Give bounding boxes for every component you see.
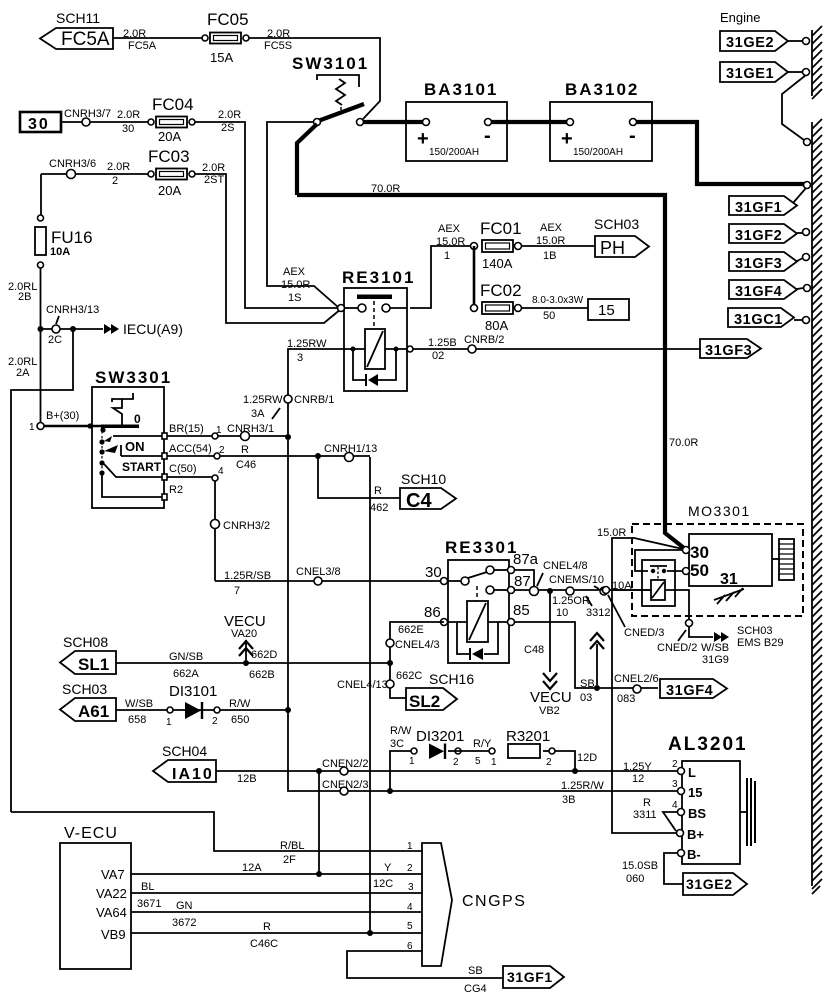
wire 87a to 87 junction <box>515 570 534 587</box>
svg-text:85: 85 <box>513 602 530 619</box>
wire BA3102 - to chassis wall <box>636 122 804 184</box>
svg-text:1B: 1B <box>543 250 556 262</box>
tag 31GE1 (engine ground) <box>720 62 810 82</box>
svg-text:2.0R: 2.0R <box>202 162 225 174</box>
svg-text:SCH04: SCH04 <box>162 743 207 759</box>
svg-text:R/W: R/W <box>390 725 412 737</box>
svg-text:VA64: VA64 <box>96 905 127 920</box>
battery BA3102 <box>550 80 652 161</box>
wire 10A into solenoid coil <box>601 589 651 591</box>
svg-text:662D: 662D <box>251 649 277 661</box>
svg-text:12A: 12A <box>242 862 262 874</box>
svg-text:3C: 3C <box>390 738 404 750</box>
svg-text:SB: SB <box>468 965 483 977</box>
svg-text:SL2: SL2 <box>409 692 440 711</box>
svg-text:IA10: IA10 <box>172 766 214 783</box>
wire VB9 row (R C46C) to CNGPS 5 <box>131 932 422 934</box>
svg-text:C48: C48 <box>524 644 544 656</box>
svg-text:3: 3 <box>297 352 303 364</box>
svg-text:2: 2 <box>212 716 218 727</box>
svg-text:1: 1 <box>29 422 35 433</box>
svg-text:30: 30 <box>690 543 709 562</box>
arrow up from SB row <box>596 644 598 685</box>
svg-text:BS: BS <box>688 806 706 821</box>
svg-text:BL: BL <box>141 881 154 893</box>
svg-text:80A: 80A <box>485 318 508 333</box>
svg-text:662B: 662B <box>249 669 275 681</box>
svg-text:87: 87 <box>514 573 531 590</box>
svg-text:VA22: VA22 <box>96 886 127 901</box>
svg-text:CG4: CG4 <box>464 983 487 995</box>
svg-text:AL3201: AL3201 <box>668 734 748 755</box>
svg-text:C(50): C(50) <box>169 463 197 475</box>
wire FC04 out (2S) down to RE3101 <box>195 122 338 308</box>
svg-text:15.0R: 15.0R <box>536 235 565 247</box>
svg-text:2.0R: 2.0R <box>117 109 140 121</box>
ignition switch SW3301 <box>92 368 172 508</box>
svg-text:50: 50 <box>543 310 555 322</box>
svg-text:V-ECU: V-ECU <box>64 825 118 842</box>
wire FU16 branch vertical <box>40 174 42 215</box>
svg-text:B+: B+ <box>687 827 704 842</box>
svg-text:CNRH3/1: CNRH3/1 <box>227 423 274 435</box>
svg-text:3311: 3311 <box>633 809 657 821</box>
svg-text:1.25Y: 1.25Y <box>623 761 652 773</box>
svg-text:060: 060 <box>626 873 644 885</box>
svg-text:3A: 3A <box>251 408 265 420</box>
svg-text:DI3201: DI3201 <box>416 728 464 745</box>
svg-text:12: 12 <box>632 773 644 785</box>
svg-text:SB: SB <box>580 678 595 690</box>
svg-text:3672: 3672 <box>172 917 196 929</box>
tag 31GE2 (AL B-) <box>683 873 747 895</box>
svg-text:2.0R: 2.0R <box>123 28 146 40</box>
svg-text:-: - <box>629 125 636 147</box>
svg-text:1S: 1S <box>288 292 301 304</box>
wire left bus bottom to CNGPS pin1 (R/BL 2F) <box>11 812 422 851</box>
svg-text:Y: Y <box>384 862 392 874</box>
wire R/462 to C4 <box>318 456 400 498</box>
svg-text:PH: PH <box>600 238 625 258</box>
wire FC03 out (2ST) down to RE3101 <box>195 174 341 323</box>
wire 30 to FC04 <box>61 121 148 123</box>
tag SL1 (SCH08) <box>60 634 116 674</box>
wire RE3101 contact out to FC01/FC02 <box>410 246 470 308</box>
svg-text:3671: 3671 <box>137 898 161 910</box>
svg-text:150/200AH: 150/200AH <box>429 147 479 158</box>
svg-text:-: - <box>484 125 491 147</box>
svg-text:FC5S: FC5S <box>264 40 292 52</box>
svg-text:VECU: VECU <box>530 689 572 706</box>
tag 31GE2 (engine ground) <box>720 31 810 51</box>
svg-text:2F: 2F <box>283 854 296 866</box>
svg-text:2: 2 <box>407 863 413 874</box>
svg-text:FC01: FC01 <box>480 219 522 238</box>
svg-text:R: R <box>241 444 249 456</box>
svg-text:ON: ON <box>125 439 145 454</box>
switch SW3101 (battery switch) <box>292 54 369 126</box>
fuse FC03 20A <box>148 147 195 198</box>
svg-text:SCH03: SCH03 <box>62 681 107 697</box>
svg-text:CNEL4/8: CNEL4/8 <box>543 560 588 572</box>
fuse FU16 10A <box>35 215 93 268</box>
wire switch left contact to FC04/FC03 feeds <box>267 122 338 307</box>
svg-text:SCH03: SCH03 <box>594 216 639 232</box>
wire CNRB/1 vertical continues to BR15 then down to A61 row and CNEN2/3 <box>288 440 680 791</box>
wire CNGPS pin6 to 31GF1 (SB CG4) <box>347 951 503 978</box>
tag IA10 (SCH04) <box>153 743 216 783</box>
svg-text:CNGPS: CNGPS <box>462 893 526 910</box>
svg-text:1: 1 <box>166 717 172 728</box>
fuse FC05 15A <box>202 10 249 65</box>
svg-text:70.0R: 70.0R <box>371 183 400 195</box>
svg-text:083: 083 <box>617 693 635 705</box>
tag 31GC1 <box>728 308 810 328</box>
svg-text:86: 86 <box>424 604 441 621</box>
tag 31GF3 <box>729 252 810 272</box>
fuse FC04 20A <box>148 95 195 144</box>
wire CNEN2/2 drop to VA7 row (R/BL pickup) <box>318 771 320 874</box>
tag 31GF4 (from RE3301 85) <box>660 679 727 699</box>
svg-text:GN: GN <box>176 900 193 912</box>
svg-text:CNEL3/8: CNEL3/8 <box>296 566 341 578</box>
wire 12D drop to 1.25Y row <box>555 751 575 771</box>
svg-text:CNED/2: CNED/2 <box>657 642 697 654</box>
svg-text:1.25R/SB: 1.25R/SB <box>224 570 271 582</box>
tag 31GF3 (from RE3101) <box>700 339 761 359</box>
svg-text:BA3102: BA3102 <box>565 80 639 99</box>
svg-text:31GF1: 31GF1 <box>735 200 782 216</box>
svg-text:BA3101: BA3101 <box>424 80 498 99</box>
svg-text:DI3101: DI3101 <box>169 683 217 700</box>
resistor R3201 <box>506 728 555 768</box>
svg-text:140A: 140A <box>482 256 513 271</box>
svg-text:CNED/3: CNED/3 <box>624 627 664 639</box>
svg-text:12C: 12C <box>373 878 393 890</box>
svg-text:CNRH3/13: CNRH3/13 <box>46 304 99 316</box>
svg-text:15.0R: 15.0R <box>597 527 626 539</box>
svg-text:MO3301: MO3301 <box>688 503 751 519</box>
svg-text:7: 7 <box>234 585 240 597</box>
node IECU branch <box>38 326 44 332</box>
tag SL2 (SCH16) <box>406 671 474 711</box>
svg-text:2.0R: 2.0R <box>218 109 241 121</box>
wire 662E vertical (86 feed) <box>390 622 444 698</box>
svg-text:CNEL4/3: CNEL4/3 <box>395 639 440 651</box>
tag C4 (SCH10) <box>400 471 456 512</box>
svg-text:15.0R: 15.0R <box>281 279 310 291</box>
svg-text:2ST: 2ST <box>204 174 224 186</box>
svg-text:3B: 3B <box>562 794 575 806</box>
node on wall 2 top <box>804 139 811 146</box>
svg-text:R: R <box>643 797 651 809</box>
tag A61 (SCH03) <box>60 681 116 721</box>
relay RE3101 <box>338 268 416 391</box>
wire FC01 out to PH <box>521 245 595 247</box>
svg-text:31GE1: 31GE1 <box>726 66 774 82</box>
tag 31GF1 (bottom) <box>503 966 564 988</box>
wire AL B+ up to starter 30 (15.0SB/15.0R) <box>612 538 683 833</box>
svg-text:CNRH3/2: CNRH3/2 <box>223 520 270 532</box>
svg-text:2S: 2S <box>221 122 234 134</box>
svg-text:20A: 20A <box>158 183 181 198</box>
svg-text:CNEL4/13: CNEL4/13 <box>337 679 388 691</box>
svg-text:SW3101: SW3101 <box>292 54 369 73</box>
svg-text:SCH10: SCH10 <box>401 471 446 487</box>
svg-text:A61: A61 <box>78 702 109 721</box>
svg-text:VB2: VB2 <box>539 705 560 717</box>
svg-text:VA20: VA20 <box>231 628 257 640</box>
arrow VECU VA20 <box>243 660 249 666</box>
svg-text:31: 31 <box>720 571 738 588</box>
svg-text:SCH08: SCH08 <box>63 634 108 650</box>
svg-text:12B: 12B <box>237 773 257 785</box>
ground wall segment 2 (chassis ground) <box>812 119 822 894</box>
tag FC5A (SCH11) <box>40 10 113 50</box>
wire thick battery lead from switch <box>297 124 317 195</box>
svg-text:15: 15 <box>688 785 702 800</box>
tag 31GF1 (to wall) <box>729 188 806 216</box>
svg-text:31GF3: 31GF3 <box>735 256 782 272</box>
diode DI3101 <box>169 683 220 727</box>
svg-text:3312: 3312 <box>586 607 610 619</box>
wire R/W 3C drop from DI3201 row <box>390 751 414 791</box>
svg-text:4: 4 <box>218 466 224 477</box>
svg-text:30: 30 <box>28 116 50 133</box>
svg-text:31GE2: 31GE2 <box>686 876 733 892</box>
node 30 box <box>20 112 61 133</box>
fuse FC01 140A <box>471 219 522 271</box>
svg-text:CNRH3/7: CNRH3/7 <box>64 108 111 120</box>
svg-text:SW3301: SW3301 <box>95 368 172 387</box>
wire 1.25R/SB row to RE3301 pin 30 <box>215 580 440 582</box>
diode DI3201 <box>416 728 464 768</box>
alternator AL3201 <box>633 734 755 864</box>
svg-text:31GF2: 31GF2 <box>735 228 782 244</box>
wire 85 row to SB/31GF4 <box>515 622 658 688</box>
fuse FC02 80A <box>471 281 522 333</box>
svg-text:150/200AH: 150/200AH <box>573 147 623 158</box>
svg-text:662A: 662A <box>173 668 199 680</box>
svg-text:87a: 87a <box>513 551 539 568</box>
svg-text:31GC1: 31GC1 <box>734 312 783 328</box>
svg-text:R: R <box>374 485 382 497</box>
svg-text:658: 658 <box>128 714 146 726</box>
svg-text:FC03: FC03 <box>148 147 190 166</box>
svg-text:50: 50 <box>690 561 709 580</box>
wire switch to BA3101 + <box>363 120 426 124</box>
svg-text:8.0-3.0x3W: 8.0-3.0x3W <box>532 295 584 306</box>
V-ECU box <box>60 825 131 969</box>
svg-text:1.25B: 1.25B <box>428 337 457 349</box>
svg-text:W/SB: W/SB <box>125 698 153 710</box>
svg-text:FC04: FC04 <box>152 95 194 114</box>
svg-text:2A: 2A <box>16 367 30 379</box>
junction A61 row on CNRB1 vertical <box>285 707 291 713</box>
svg-text:SCH16: SCH16 <box>429 671 474 687</box>
svg-text:CNRH3/6: CNRH3/6 <box>49 158 96 170</box>
svg-text:5: 5 <box>407 921 413 932</box>
svg-text:GN/SB: GN/SB <box>169 651 203 663</box>
svg-text:4: 4 <box>407 902 413 913</box>
svg-text:1.25OR: 1.25OR <box>552 595 590 607</box>
svg-text:02: 02 <box>432 350 444 362</box>
battery BA3101 <box>406 80 507 161</box>
svg-text:W/SB: W/SB <box>701 642 729 654</box>
svg-text:15A: 15A <box>210 50 233 65</box>
wire A61 to diode (W/SB 658) <box>116 709 285 711</box>
wire IA10 row (12B / 1.25Y 12) to AL3201 L <box>216 770 680 772</box>
svg-text:R/Y: R/Y <box>473 738 492 750</box>
svg-text:ACC(54): ACC(54) <box>169 443 212 455</box>
connector CNGPS <box>407 841 526 966</box>
wire VA22 row (BL 3671) to CNGPS 3 <box>131 892 422 894</box>
svg-text:SCH03: SCH03 <box>737 625 772 637</box>
svg-text:CNEMS/10: CNEMS/10 <box>549 574 604 586</box>
svg-text:SL1: SL1 <box>78 655 109 674</box>
wire 87 row to starter solenoid (1.25OR 10A) <box>515 589 651 591</box>
svg-text:1: 1 <box>444 250 450 262</box>
svg-text:C46: C46 <box>236 459 256 471</box>
svg-text:15.0R: 15.0R <box>436 236 465 248</box>
svg-text:CNRB/2: CNRB/2 <box>464 334 504 346</box>
wire CNRH3/6 to FC03 <box>41 173 148 175</box>
starter motor MO3301 <box>632 503 803 616</box>
tag 31GF4 <box>729 280 811 300</box>
svg-text:12D: 12D <box>577 752 597 764</box>
svg-text:462: 462 <box>370 502 388 514</box>
svg-text:R2: R2 <box>169 484 183 496</box>
wire FU16 to B+ node (2.0RL) <box>40 268 42 426</box>
svg-text:R/W: R/W <box>229 698 251 710</box>
wire AL B- to 31GE2 <box>664 853 683 884</box>
svg-text:FU16: FU16 <box>51 228 93 247</box>
svg-text:1.25RW: 1.25RW <box>243 394 283 406</box>
wire solenoid coil to CNED/2 and EMS B29 <box>665 590 713 637</box>
svg-text:5: 5 <box>475 756 481 767</box>
wire RE3101 coil out (1.25B) to 31GF3 <box>413 348 700 350</box>
tag PH (SCH03) <box>594 216 649 258</box>
relay RE3301 <box>424 538 539 663</box>
wire SL1 row (GN/SB 662A) <box>116 662 390 664</box>
arrow to IECU(A9) <box>104 324 119 334</box>
svg-text:AEX: AEX <box>438 223 461 235</box>
svg-text:2C: 2C <box>48 334 62 346</box>
svg-text:1: 1 <box>407 841 413 852</box>
svg-text:20A: 20A <box>158 129 181 144</box>
svg-text:R: R <box>263 921 271 933</box>
svg-text:15.0SB: 15.0SB <box>622 860 658 872</box>
svg-text:1.25RW: 1.25RW <box>287 338 327 350</box>
svg-text:B+(30): B+(30) <box>46 410 79 422</box>
svg-text:2: 2 <box>546 757 552 768</box>
wire FC5A to FC05 <box>113 37 202 39</box>
svg-text:+: + <box>561 128 573 150</box>
svg-text:EMS B29: EMS B29 <box>737 637 783 649</box>
svg-text:662C: 662C <box>396 670 422 682</box>
svg-text:30: 30 <box>425 564 442 581</box>
svg-text:2: 2 <box>453 757 459 768</box>
wire IECU node down to left bus <box>11 329 73 812</box>
svg-text:30: 30 <box>122 123 134 135</box>
svg-text:70.0R: 70.0R <box>669 437 698 449</box>
svg-text:03: 03 <box>580 692 592 704</box>
svg-text:IECU(A9): IECU(A9) <box>123 321 183 337</box>
wire FC05 to SW3101 <box>249 38 380 119</box>
svg-text:FC5A: FC5A <box>61 29 110 50</box>
svg-text:Engine: Engine <box>720 10 760 25</box>
svg-text:+: + <box>417 128 429 150</box>
svg-text:3: 3 <box>408 882 414 893</box>
svg-text:31GF4: 31GF4 <box>666 683 713 699</box>
svg-text:RE3101: RE3101 <box>342 268 415 287</box>
svg-text:31G9: 31G9 <box>702 654 729 666</box>
svg-text:10: 10 <box>556 607 568 619</box>
svg-text:BR(15): BR(15) <box>169 423 204 435</box>
svg-text:C4: C4 <box>406 490 432 512</box>
svg-text:VA7: VA7 <box>101 867 125 882</box>
svg-text:VB9: VB9 <box>101 927 126 942</box>
svg-text:2.0R: 2.0R <box>267 28 290 40</box>
svg-text:B-: B- <box>687 847 701 862</box>
svg-text:2: 2 <box>672 759 678 770</box>
svg-text:1: 1 <box>409 756 415 767</box>
svg-text:FC05: FC05 <box>207 10 249 29</box>
svg-text:L: L <box>688 765 696 780</box>
svg-text:650: 650 <box>231 714 249 726</box>
wire linking engine ground to chassis wall <box>782 75 806 140</box>
svg-text:31GF3: 31GF3 <box>705 343 752 359</box>
svg-text:3: 3 <box>672 779 678 790</box>
svg-text:SCH11: SCH11 <box>56 10 100 26</box>
svg-text:R/BL: R/BL <box>280 840 304 852</box>
wire FC01-FC02 link <box>473 246 476 308</box>
wire RE3101 coil left (1.25RW) down to CNRB/1 <box>288 349 344 434</box>
svg-text:1.25R/W: 1.25R/W <box>561 780 604 792</box>
ground wall segment 1 (engine ground) <box>812 26 822 99</box>
svg-text:AEX: AEX <box>283 266 306 278</box>
svg-text:4: 4 <box>672 800 678 811</box>
svg-text:31GF4: 31GF4 <box>735 284 782 300</box>
wire R/C46 vertical from ACC row to VB9 row <box>369 498 371 933</box>
svg-text:10A: 10A <box>50 246 70 258</box>
svg-text:FC5A: FC5A <box>128 40 157 52</box>
svg-text:START: START <box>122 460 162 474</box>
svg-text:C46C: C46C <box>250 938 278 950</box>
svg-text:RE3301: RE3301 <box>445 538 518 557</box>
svg-text:31GF1: 31GF1 <box>507 969 553 985</box>
svg-text:0: 0 <box>134 412 141 426</box>
svg-text:15: 15 <box>598 302 615 319</box>
svg-text:CNRB/1: CNRB/1 <box>294 394 334 406</box>
wire VA7 row (12A) to CNGPS 2 <box>131 873 422 875</box>
wire FC02 out to 15 box <box>521 307 588 309</box>
svg-text:CNEL2/6: CNEL2/6 <box>614 673 659 685</box>
wire 87-row branch down to VECU VB2 <box>549 591 551 672</box>
wire 70.0R battery bus <box>297 195 684 548</box>
wire VA64 row (GN 3672) to CNGPS 4 <box>131 911 422 913</box>
tag 31GF2 <box>729 224 810 244</box>
node 15 box <box>588 299 629 320</box>
svg-text:1: 1 <box>491 757 497 768</box>
svg-text:R3201: R3201 <box>506 728 550 745</box>
svg-text:2B: 2B <box>18 291 31 303</box>
svg-text:2: 2 <box>112 175 118 187</box>
svg-text:31GE2: 31GE2 <box>726 35 774 51</box>
svg-text:2.0R: 2.0R <box>107 161 130 173</box>
svg-text:FC02: FC02 <box>480 281 522 300</box>
wire BA3101 - to BA3102 + <box>491 120 570 124</box>
